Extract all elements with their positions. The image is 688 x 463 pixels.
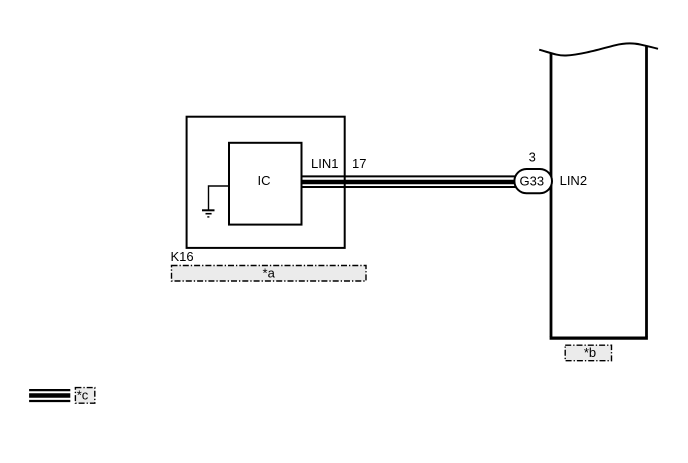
svg-text:3: 3	[529, 149, 536, 164]
wire (shielded LIN wire from IC pin to G33)	[300, 176, 516, 187]
ground wire	[209, 186, 230, 210]
callout *b	[565, 345, 611, 361]
svg-text:*a: *a	[263, 266, 276, 281]
callout *c	[75, 388, 94, 404]
connector terminal G33	[514, 169, 552, 193]
component LIN2 connector body	[539, 43, 658, 338]
svg-text:*b: *b	[584, 345, 596, 360]
svg-text:17: 17	[352, 156, 366, 171]
svg-text:LIN2: LIN2	[560, 173, 587, 188]
svg-text:K16: K16	[171, 249, 194, 264]
svg-text:IC: IC	[258, 173, 271, 188]
svg-text:LIN1: LIN1	[311, 156, 338, 171]
legend shielded-wire sample	[29, 390, 70, 401]
svg-text:*c: *c	[77, 388, 89, 403]
op-amp/IC U1 block	[229, 143, 302, 225]
callout *a	[172, 266, 367, 282]
component K16 ECU box	[187, 117, 345, 248]
svg-text:G33: G33	[520, 174, 545, 189]
ground	[202, 210, 215, 217]
